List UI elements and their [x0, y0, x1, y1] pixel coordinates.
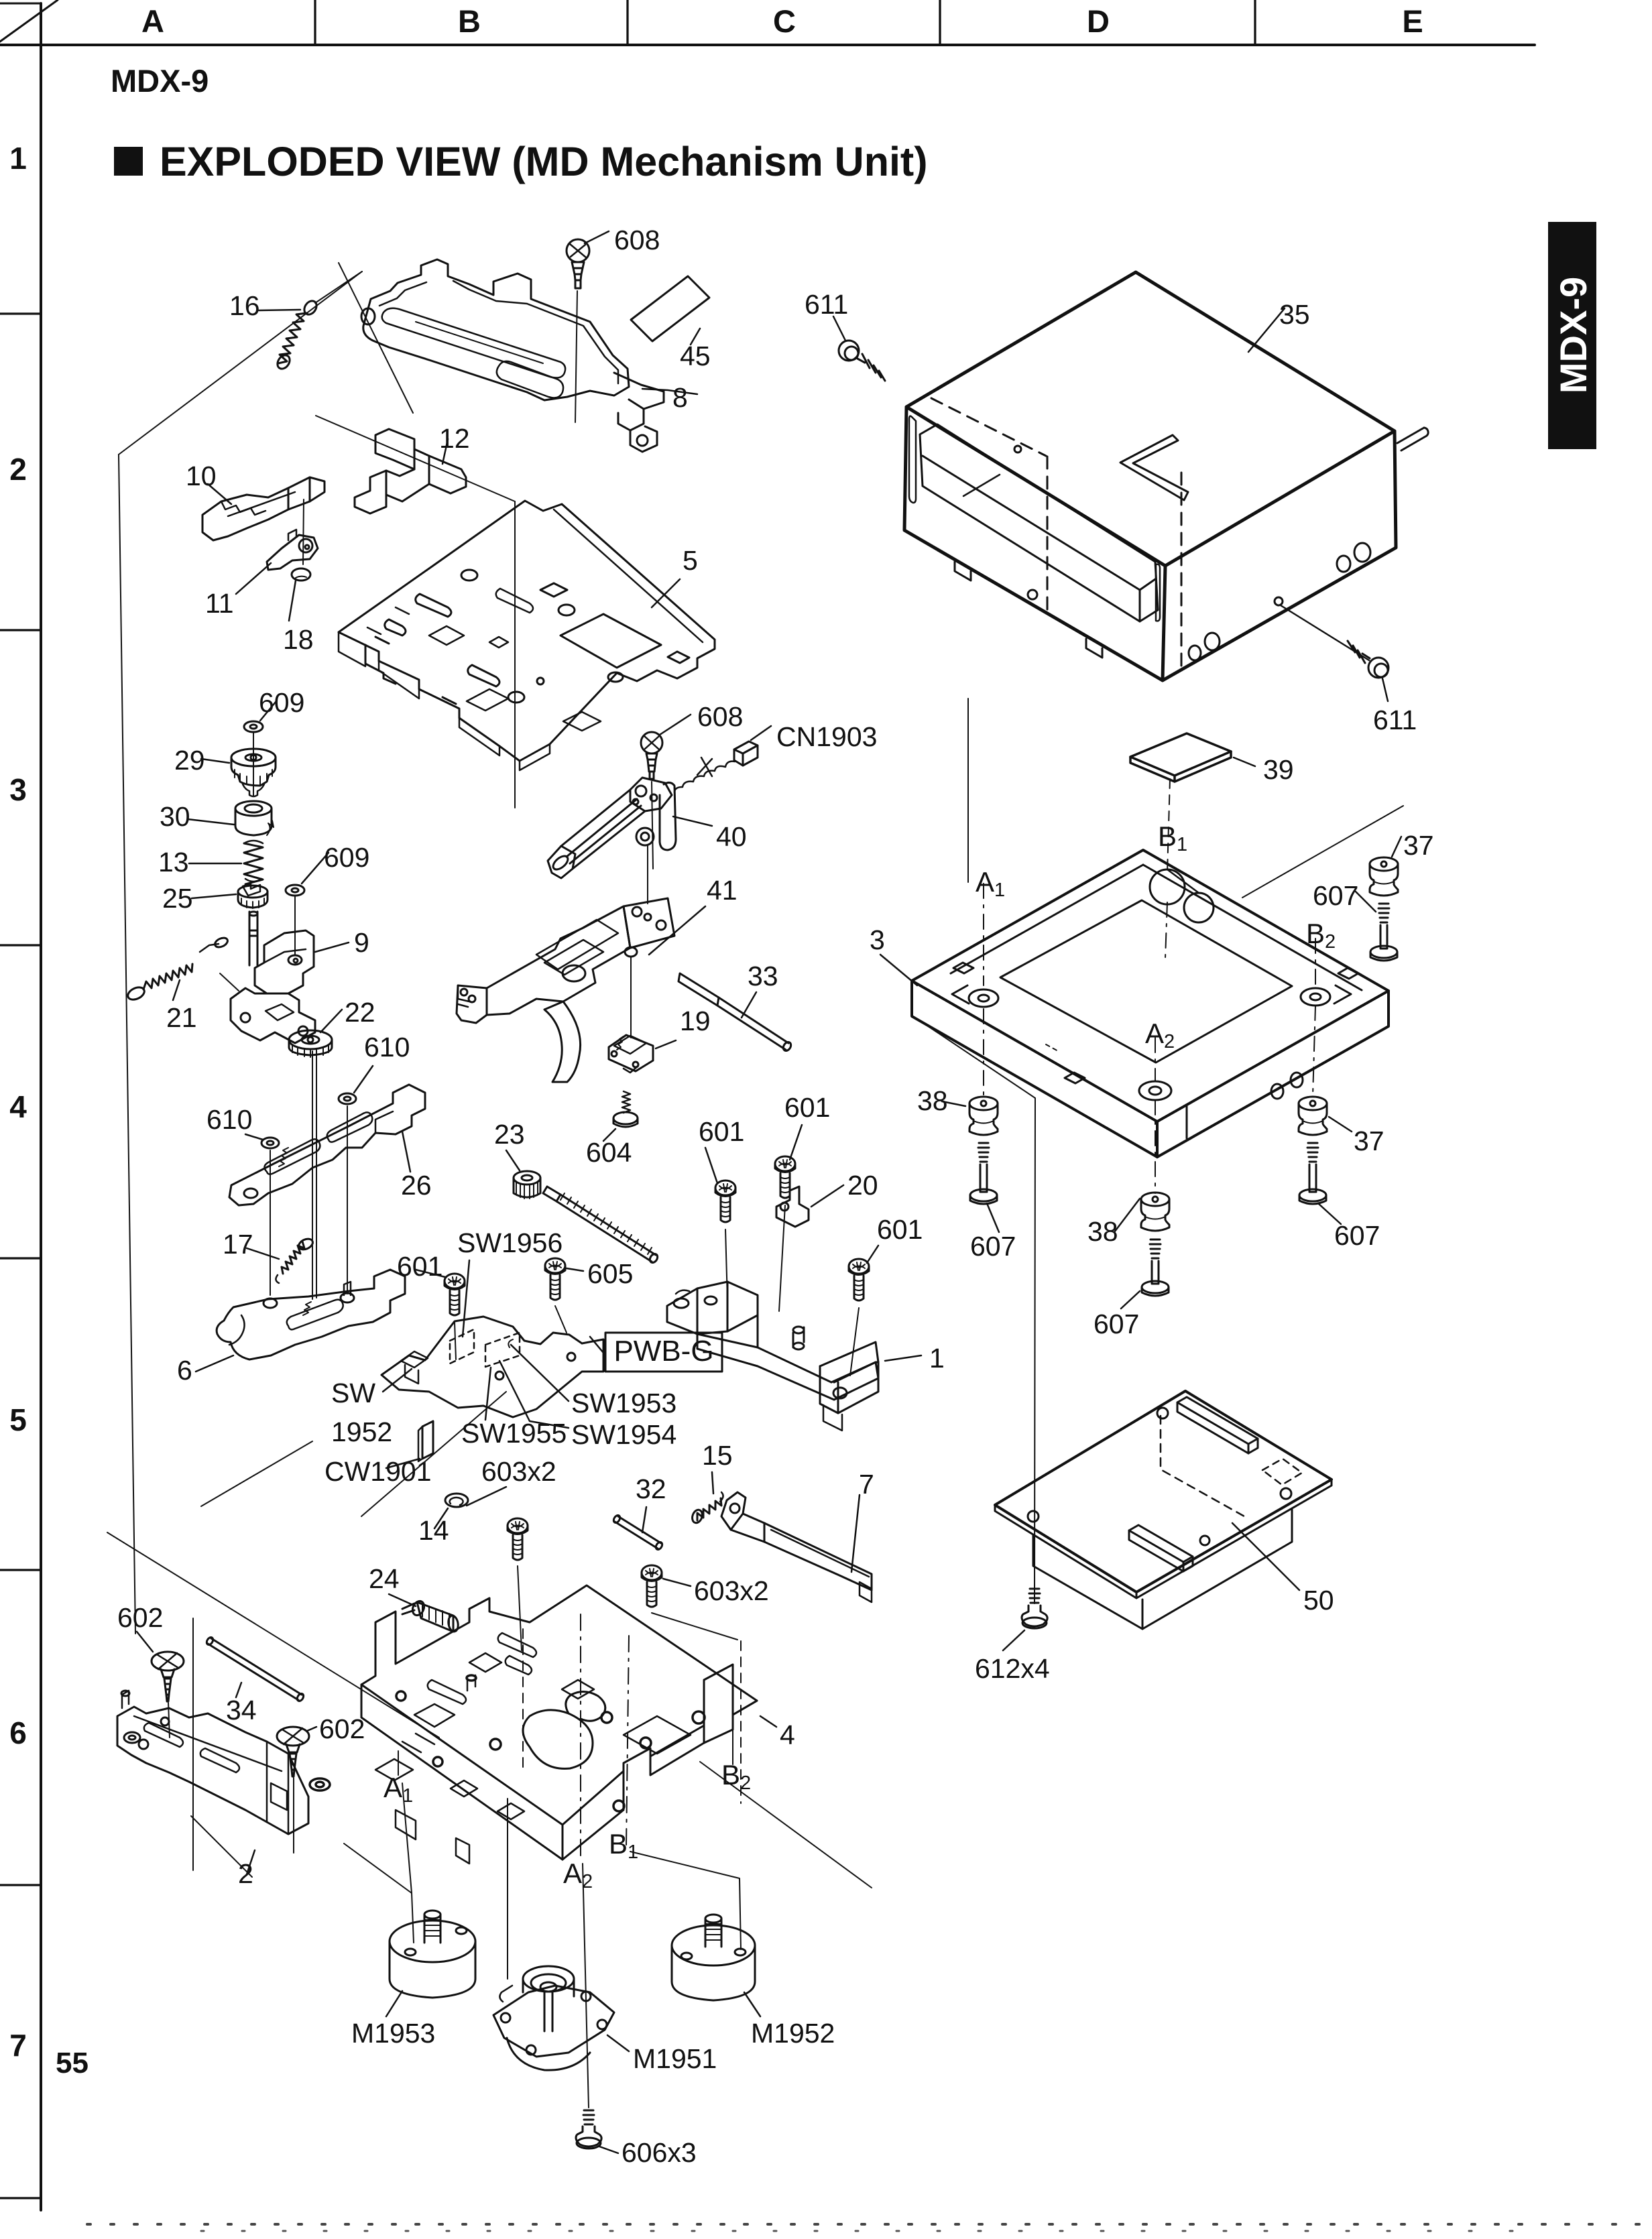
holes — [1028, 1511, 1039, 1522]
spring 21 — [126, 936, 229, 1002]
svg-text:16: 16 — [229, 290, 260, 321]
corner bosses — [969, 989, 998, 1007]
svg-text:607: 607 — [1313, 880, 1358, 911]
plate 5 — [339, 501, 715, 770]
twisted wire — [674, 762, 735, 792]
screw 612 — [1003, 1589, 1047, 1650]
svg-text:18: 18 — [283, 624, 314, 655]
svg-text:SW1954: SW1954 — [571, 1419, 676, 1450]
A/B designators with subscripts — [383, 821, 1336, 1892]
motor M1951 — [493, 1966, 629, 2070]
under prism — [1033, 1510, 1292, 1629]
svg-text:37: 37 — [1354, 1126, 1384, 1156]
svg-text:24: 24 — [369, 1563, 400, 1594]
B2 leader — [732, 1730, 733, 1764]
right wall holes — [1271, 1084, 1283, 1099]
leader 4 — [760, 1716, 776, 1727]
knob 23 — [506, 1150, 540, 1199]
svg-text:612x4: 612x4 — [975, 1653, 1050, 1684]
flexible rod 31 — [543, 1187, 659, 1264]
svg-text:26: 26 — [401, 1170, 432, 1201]
long thin vertical guides — [347, 1106, 348, 1294]
screw 603 a — [508, 1518, 528, 1650]
svg-text:A2: A2 — [1145, 1018, 1175, 1052]
svg-text:609: 609 — [324, 842, 369, 873]
PWB-G switch board — [381, 1260, 603, 1428]
alignment line box->tray A1 — [967, 699, 969, 882]
bracket 9 — [255, 930, 349, 993]
long slider window — [382, 308, 565, 378]
leader 3 — [880, 955, 917, 985]
fork tip — [548, 846, 575, 878]
left margin vertical rule — [40, 3, 42, 2210]
svg-text:602: 602 — [117, 1602, 163, 1633]
svg-text:4: 4 — [780, 1719, 795, 1750]
svg-text:22: 22 — [345, 997, 375, 1028]
sticker 45 — [631, 276, 709, 341]
dash-dot designator lines — [983, 884, 984, 985]
svg-text:41: 41 — [707, 875, 737, 906]
pickup 40 — [548, 778, 712, 904]
top cutouts — [523, 1710, 593, 1769]
leader 611 right from hole — [1281, 605, 1369, 660]
rod 33 — [678, 973, 792, 1052]
top edge stub — [0, 3, 41, 5]
svg-text:MDX-9: MDX-9 — [111, 63, 209, 99]
svg-text:SW: SW — [331, 1378, 375, 1408]
PWB-G box — [605, 1333, 722, 1372]
svg-text:5: 5 — [9, 1402, 27, 1437]
lever 6 — [196, 1270, 405, 1372]
svg-text:SW1956: SW1956 — [457, 1227, 563, 1258]
svg-text:CN1903: CN1903 — [776, 721, 877, 752]
screw 604 — [603, 1091, 638, 1141]
svg-text:9: 9 — [354, 927, 369, 958]
svg-text:19: 19 — [680, 1006, 711, 1036]
carriage 41 — [457, 898, 705, 1082]
connector bars — [1177, 1397, 1258, 1444]
svg-text:2: 2 — [9, 452, 27, 487]
svg-text:606x3: 606x3 — [622, 2137, 697, 2168]
svg-text:A: A — [141, 3, 164, 39]
connector CN1903 — [674, 726, 771, 792]
svg-text:1952: 1952 — [331, 1416, 392, 1447]
spring 17 — [247, 1237, 314, 1283]
gear 24 (worm) — [389, 1594, 459, 1632]
inner shelf top — [951, 865, 1362, 990]
arm — [697, 1334, 878, 1400]
part 7 arm — [721, 1492, 872, 1602]
right slide bar — [660, 782, 676, 850]
svg-text:605: 605 — [587, 1258, 633, 1289]
bottom scan dots — [87, 2223, 1652, 2226]
leader 50 — [1232, 1523, 1299, 1590]
svg-text:B1: B1 — [609, 1828, 638, 1863]
svg-text:610: 610 — [206, 1104, 252, 1135]
outer slab — [363, 259, 629, 400]
dashed rect — [1262, 1459, 1302, 1485]
svg-text:8: 8 — [672, 382, 688, 413]
handle pin right — [1397, 428, 1428, 450]
svg-text:38: 38 — [917, 1085, 948, 1116]
lower rounded slot — [497, 361, 563, 398]
svg-text:601: 601 — [877, 1214, 923, 1245]
svg-text:M1952: M1952 — [751, 2018, 835, 2049]
screw 601 c — [849, 1246, 878, 1376]
bottom tabs — [955, 562, 971, 581]
top-right wall — [554, 504, 715, 642]
dashed trace — [1161, 1416, 1244, 1516]
left round hole — [361, 308, 375, 324]
inner left jamb — [909, 416, 916, 503]
svg-text:611: 611 — [805, 289, 848, 320]
extra texture — [506, 1656, 532, 1675]
svg-text:21: 21 — [166, 1002, 197, 1033]
svg-text:A2: A2 — [563, 1858, 593, 1892]
screw 606 — [576, 2110, 618, 2153]
svg-text:6: 6 — [177, 1355, 192, 1386]
svg-text:M1951: M1951 — [633, 2043, 717, 2074]
svg-text:610: 610 — [364, 1032, 410, 1063]
tiny arrow mark — [267, 821, 274, 835]
screw 601 d (left) — [416, 1270, 465, 1359]
svg-text:A1: A1 — [976, 866, 1005, 901]
spring 16 — [259, 298, 319, 371]
svg-text:12: 12 — [439, 423, 470, 454]
damper designator polylines — [402, 1783, 414, 1943]
damper M1953 — [386, 1911, 475, 2016]
small posts — [467, 1675, 475, 1691]
washer 18 — [289, 568, 310, 621]
long line tray corner down to pcb screws — [913, 1016, 1035, 1603]
right end block — [820, 1342, 878, 1382]
flex ribbon — [544, 1002, 581, 1082]
svg-text:23: 23 — [494, 1119, 525, 1150]
spring 15 — [691, 1472, 723, 1524]
enclosure 35 — [904, 272, 1396, 680]
svg-text:35: 35 — [1279, 299, 1310, 330]
part 11 — [236, 499, 318, 594]
leader 8 — [642, 389, 697, 394]
dampers 37/38 with screws 607 — [942, 1097, 999, 1232]
part 2 bracket — [117, 1691, 308, 1874]
front bezel opening — [920, 424, 1158, 621]
svg-text:11: 11 — [205, 588, 234, 619]
gear 22 — [289, 1010, 342, 1057]
left fork — [457, 985, 487, 1023]
svg-text:MDX-9: MDX-9 — [1552, 277, 1594, 394]
svg-text:50: 50 — [1303, 1585, 1334, 1616]
upper block — [630, 778, 672, 811]
svg-text:1: 1 — [9, 141, 27, 176]
screw 605 — [545, 1258, 583, 1333]
gear 25 — [192, 884, 268, 908]
ring 14 — [434, 1487, 506, 1528]
leader 5 — [652, 579, 680, 607]
screw 611 right — [1348, 641, 1389, 701]
side tab — [1548, 222, 1596, 449]
slider 26 — [229, 1085, 425, 1205]
svg-text:33: 33 — [748, 961, 778, 991]
spindle lower shaft — [249, 912, 257, 965]
left block — [667, 1282, 758, 1334]
svg-text:C: C — [773, 3, 796, 39]
screw 608 top — [567, 231, 609, 422]
bottom-left flange details — [396, 1810, 416, 1839]
tray 3 — [912, 850, 1389, 1157]
part 10 — [202, 477, 324, 540]
screw 601 b — [775, 1125, 802, 1311]
svg-text:601: 601 — [397, 1251, 442, 1282]
svg-text:7: 7 — [9, 2028, 27, 2063]
screw 608 b — [641, 715, 691, 869]
svg-text:603x2: 603x2 — [481, 1456, 556, 1487]
small tabs on edges — [953, 963, 973, 973]
extra details — [496, 589, 533, 613]
row ticks — [0, 312, 41, 314]
svg-text:34: 34 — [226, 1695, 257, 1726]
svg-text:32: 32 — [636, 1473, 666, 1504]
svg-text:607: 607 — [1094, 1309, 1139, 1339]
svg-text:E: E — [1402, 3, 1423, 39]
svg-text:17: 17 — [223, 1229, 253, 1260]
small dashed circle detail — [1046, 1044, 1059, 1052]
top slide plate 8 — [315, 259, 709, 452]
pad 39 — [1130, 733, 1255, 782]
damper M1952 — [672, 1915, 760, 2016]
lever 1 — [667, 1282, 921, 1431]
svg-text:604: 604 — [586, 1137, 632, 1168]
washer 609 b — [286, 853, 329, 955]
svg-text:20: 20 — [847, 1170, 878, 1201]
leader 35 — [1248, 308, 1285, 352]
hinge pin — [625, 947, 637, 957]
svg-text:55: 55 — [56, 2047, 88, 2079]
svg-text:38: 38 — [1087, 1216, 1118, 1247]
title — [114, 147, 143, 176]
svg-text:D: D — [1087, 3, 1110, 39]
svg-text:B: B — [458, 3, 481, 39]
svg-text:SW1955: SW1955 — [461, 1418, 567, 1449]
svg-text:39: 39 — [1263, 754, 1294, 785]
svg-text:14: 14 — [418, 1515, 449, 1546]
svg-text:608: 608 — [697, 701, 743, 732]
A1 leader — [398, 1751, 399, 1775]
corner cut details — [952, 985, 969, 1004]
svg-text:13: 13 — [158, 847, 189, 878]
sled rails — [561, 790, 645, 869]
walls — [361, 1685, 563, 1860]
svg-text:602: 602 — [319, 1713, 365, 1744]
cam lever under 9 — [220, 973, 315, 1043]
svg-text:45: 45 — [680, 341, 711, 371]
rod 34 — [205, 1636, 304, 1702]
spring 13 — [189, 821, 274, 884]
alignment dashed B1 pad->tray — [1167, 779, 1170, 873]
header rule — [0, 44, 1535, 46]
svg-text:25: 25 — [162, 883, 193, 914]
washer 610 b — [245, 1134, 279, 1148]
spindle shaft — [253, 732, 254, 796]
PCB 50 — [995, 1391, 1332, 1598]
svg-text:PWB-G: PWB-G — [613, 1335, 713, 1368]
svg-text:3: 3 — [870, 924, 885, 955]
svg-text:B1: B1 — [1158, 821, 1187, 855]
svg-text:607: 607 — [970, 1231, 1016, 1262]
svg-text:SW1953: SW1953 — [571, 1388, 676, 1418]
svg-text:601: 601 — [784, 1092, 830, 1123]
svg-text:40: 40 — [716, 821, 747, 852]
turntable 29 — [201, 749, 276, 796]
dashed holes lines — [522, 1629, 524, 1767]
svg-text:3: 3 — [9, 772, 27, 807]
column ticks — [314, 0, 316, 45]
screw 601 a — [705, 1148, 735, 1300]
long line tray->upper right — [1242, 806, 1403, 898]
svg-text:5: 5 — [683, 545, 698, 576]
header texts — [141, 3, 1423, 39]
inner opening — [1000, 900, 1292, 1063]
bracket 19 — [609, 1035, 676, 1073]
leader 16-line to plate — [315, 271, 362, 303]
inner details — [416, 594, 451, 617]
scan corner artifact — [0, 0, 58, 42]
chassis 4 — [310, 1585, 776, 1864]
boss pin mid — [793, 1327, 804, 1347]
CW1901 pin — [386, 1421, 433, 1468]
small holes — [1337, 556, 1350, 572]
svg-text:30: 30 — [160, 801, 190, 832]
screw 611 left — [833, 316, 885, 381]
rod 32 — [612, 1507, 663, 1551]
chevron cutout on top — [1120, 435, 1188, 500]
inner outline parallel — [379, 281, 618, 383]
svg-text:611: 611 — [1373, 705, 1417, 735]
svg-text:1: 1 — [929, 1343, 945, 1374]
leaders from SW labels — [383, 1369, 412, 1392]
main frame — [487, 906, 630, 1015]
svg-text:M1953: M1953 — [351, 2018, 435, 2049]
svg-text:EXPLODED VIEW (MD Mechanism Un: EXPLODED VIEW (MD Mechanism Unit) — [160, 139, 928, 184]
screw 603 b — [642, 1565, 737, 1640]
right bracket arm of 8 — [614, 373, 664, 409]
svg-text:603x2: 603x2 — [694, 1575, 769, 1606]
svg-text:15: 15 — [702, 1440, 733, 1471]
svg-text:608: 608 — [614, 225, 660, 255]
svg-text:6: 6 — [9, 1715, 27, 1750]
svg-text:601: 601 — [699, 1116, 744, 1147]
svg-text:4: 4 — [9, 1089, 27, 1124]
washer 610 a — [339, 1066, 373, 1104]
roller 30 — [188, 801, 272, 835]
part 12 — [355, 429, 466, 513]
bottom corner step — [1157, 1122, 1159, 1157]
right plate — [624, 898, 674, 948]
svg-text:29: 29 — [174, 745, 205, 776]
svg-text:37: 37 — [1403, 830, 1434, 861]
foot bearing — [636, 828, 654, 845]
part 20 — [776, 1185, 843, 1227]
dashed alignment — [931, 398, 1046, 456]
left flange tabs — [365, 645, 396, 684]
svg-text:7: 7 — [859, 1469, 874, 1500]
B1 boss: two circles — [1150, 869, 1185, 904]
screw 602 a — [137, 1632, 184, 1738]
screw 602 b — [277, 1727, 316, 1853]
washer 609 a — [244, 701, 276, 732]
